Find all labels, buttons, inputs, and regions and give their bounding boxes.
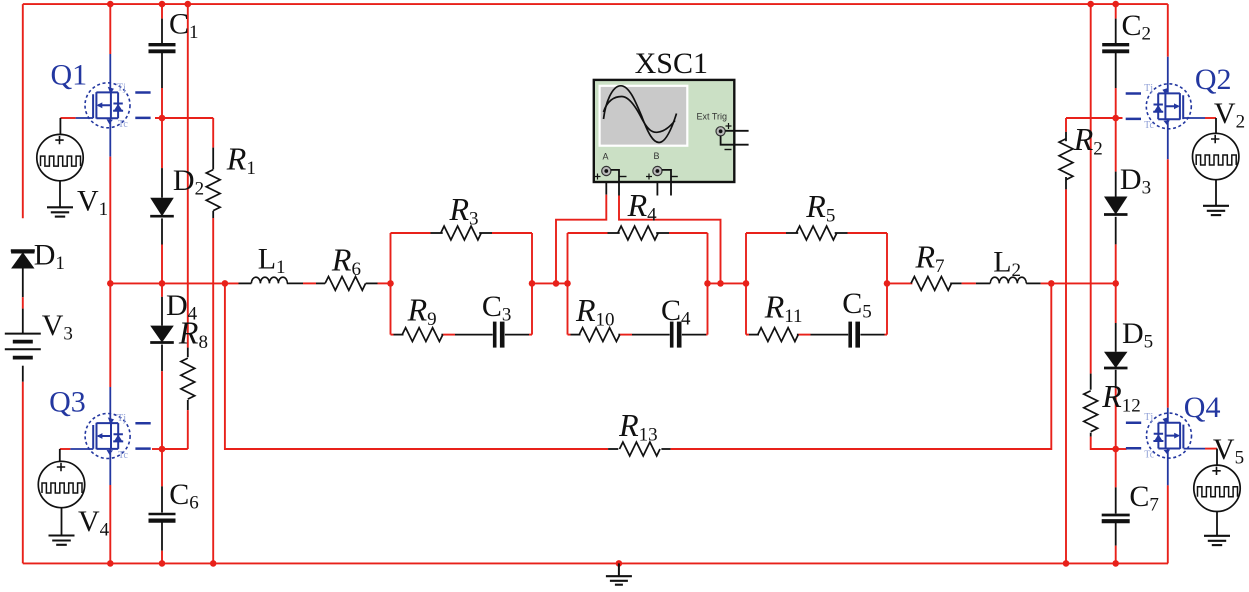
wire parallel-box 1 bottom branch — [391, 334, 394, 336]
wire V4 to Q3 gate — [60, 448, 71, 450]
wire D3 rail — [1115, 118, 1117, 172]
wire Q1 drain from top bus — [109, 4, 111, 54]
capacitor C3 — [493, 322, 497, 348]
capacitor C1 — [149, 43, 176, 46]
wire R2 rail from y118 — [1065, 118, 1067, 132]
resistor R11 — [758, 328, 798, 342]
wire R12 rail from top bus — [1090, 4, 1092, 374]
inductor L1 — [251, 277, 287, 283]
wire L1 leads — [239, 282, 252, 284]
resistor R12 — [1084, 391, 1098, 432]
resistor R13 — [620, 442, 661, 456]
wire Q2 drain from top bus — [1167, 4, 1169, 57]
wire Q2 gate to V2 — [1183, 117, 1205, 119]
pulse source V4 — [38, 461, 84, 507]
wire R8 bottom to Q3 node — [187, 400, 189, 410]
wire D4 rail — [161, 283, 163, 297]
wire R12 bottom to Q4 node — [1090, 433, 1092, 437]
wire C6 rail — [161, 449, 163, 486]
svg-text:Tj: Tj — [1144, 412, 1153, 423]
mosfet Q2 — [1146, 84, 1191, 129]
svg-text:Tc: Tc — [1144, 120, 1154, 131]
wire R2 bottom to bottom bus — [1065, 177, 1067, 189]
wire scope A+ to mid bus — [605, 182, 607, 195]
wire Q2 source down to Q4 drain — [1167, 119, 1169, 159]
svg-text:Q4: Q4 — [1184, 391, 1221, 424]
svg-text:Q2: Q2 — [1195, 63, 1232, 96]
ground of V2 — [1215, 180, 1217, 206]
capacitor C2 — [1102, 43, 1129, 46]
pulse source V5 — [1194, 465, 1240, 511]
pulse source V2 — [1193, 133, 1239, 179]
wire D2 rail — [161, 118, 163, 168]
wire C1 rail — [161, 4, 163, 19]
ground of V1 — [59, 181, 61, 208]
svg-text:B: B — [654, 151, 660, 161]
wire mid bus L1-R6-box1 — [303, 282, 316, 284]
wire parallel-box 1 left edge — [390, 233, 392, 335]
svg-text:XSC1: XSC1 — [635, 47, 708, 80]
mosfet Q4 — [1147, 413, 1192, 458]
wire C7 rail — [1115, 449, 1117, 487]
svg-text:Tc: Tc — [118, 119, 128, 130]
ground of V4 — [61, 508, 63, 536]
wire left rail top (to D1) — [22, 4, 24, 218]
svg-text:Ext Trig: Ext Trig — [697, 111, 728, 121]
junction dots top bus — [107, 1, 114, 8]
diode D3 — [1104, 197, 1128, 215]
diode D5 — [1104, 352, 1128, 368]
wire mid bus box3-R7 — [887, 282, 912, 284]
wire bottom bus — [23, 562, 1168, 564]
ground of V5 — [1216, 512, 1218, 536]
svg-text:Q1: Q1 — [51, 59, 88, 92]
oscilloscope XSC1 — [594, 80, 749, 182]
wire R1 rail from y118 — [212, 118, 214, 148]
resistor R9 — [402, 328, 443, 342]
node C1-D2 junction at y118 — [155, 117, 213, 119]
svg-text:Tj: Tj — [117, 413, 126, 424]
wire C2 rail — [1115, 4, 1117, 19]
wire Q4 case stub — [1116, 448, 1127, 450]
wire Q4 source to bottom bus — [1167, 449, 1169, 486]
svg-text:Q3: Q3 — [49, 386, 86, 419]
wire parallel-box 1 right edge — [531, 233, 533, 335]
wire Q3 drain from mid bus — [109, 283, 111, 387]
svg-text:Tc: Tc — [118, 450, 128, 461]
wire left rail D1-V3 — [22, 269, 24, 298]
capacitor C5 — [848, 322, 852, 348]
resistor R10 — [579, 328, 620, 342]
junction dots bottom bus — [107, 560, 114, 567]
mosfet Q1 — [85, 83, 130, 128]
resistor R1 — [206, 170, 220, 211]
wire parallel-box 2 top branch — [568, 232, 608, 234]
capacitor C4 — [670, 322, 674, 348]
wire parallel-box 3 right edge — [886, 233, 888, 335]
junction dots mid bus — [107, 280, 114, 287]
mosfet Q3 — [85, 414, 130, 459]
wire parallel-box 3 bottom branch — [746, 334, 749, 336]
resistor R8 — [181, 358, 195, 399]
ground bottom middle — [618, 563, 620, 576]
wire scope B stubs — [656, 182, 658, 196]
pulse source V1 — [37, 134, 83, 180]
wire mid bus left section — [110, 282, 238, 284]
capacitor C6 — [149, 513, 176, 516]
capacitor C7 — [1102, 514, 1130, 517]
svg-text:Tj: Tj — [117, 82, 126, 93]
wire parallel-box 2 left edge — [567, 233, 569, 335]
resistor R7 — [911, 277, 952, 291]
resistor R3 — [441, 226, 481, 240]
wire parallel-box 2 right edge — [707, 233, 709, 335]
resistor R2 — [1059, 139, 1073, 180]
svg-text:Tj: Tj — [1144, 83, 1153, 94]
wire R1 bottom to bottom bus — [212, 211, 214, 218]
wire parallel-box 3 top branch — [746, 232, 786, 234]
wire mid bus R7-L2 (lead colors) — [950, 282, 961, 284]
wire R8 rail from top bus — [187, 4, 189, 348]
wire R6 leads — [316, 282, 325, 284]
wire Q3 case stub — [152, 448, 162, 450]
wire D5 rail — [1115, 283, 1117, 323]
wire V1 to Q1 gate — [60, 117, 75, 119]
diode D2 — [150, 198, 174, 217]
node C2-D3 junction at y118 right — [1066, 117, 1123, 119]
diode D1 — [11, 252, 34, 268]
svg-text:A: A — [603, 152, 609, 162]
wire mid bus L2-right end — [1026, 282, 1040, 284]
wire Q1 source to mid bus — [109, 118, 111, 156]
wire Q4 gate to V5 — [1184, 448, 1205, 450]
wire parallel-box 1 top branch — [391, 232, 431, 234]
resistor R4 — [618, 226, 658, 240]
battery V3 — [5, 333, 41, 335]
resistor R6 — [325, 277, 366, 291]
inductor L2 — [990, 277, 1026, 283]
wire mid bus box1-box2 — [532, 282, 568, 284]
svg-text:Tc: Tc — [1144, 449, 1154, 460]
wire parallel-box 2 bottom branch — [568, 334, 571, 336]
wire mid bus box2-box3 — [708, 282, 747, 284]
resistor R5 — [796, 226, 837, 240]
wire left rail bottom (V3 to bottom bus) — [22, 382, 24, 564]
wire R13 run — [225, 283, 608, 449]
diode D4 — [150, 326, 174, 343]
wire top bus — [23, 3, 1168, 5]
wire Q3 source to bottom bus — [109, 449, 111, 485]
wire parallel-box 3 left edge — [745, 233, 747, 335]
wire scope A- to mid bus right node — [618, 182, 620, 196]
